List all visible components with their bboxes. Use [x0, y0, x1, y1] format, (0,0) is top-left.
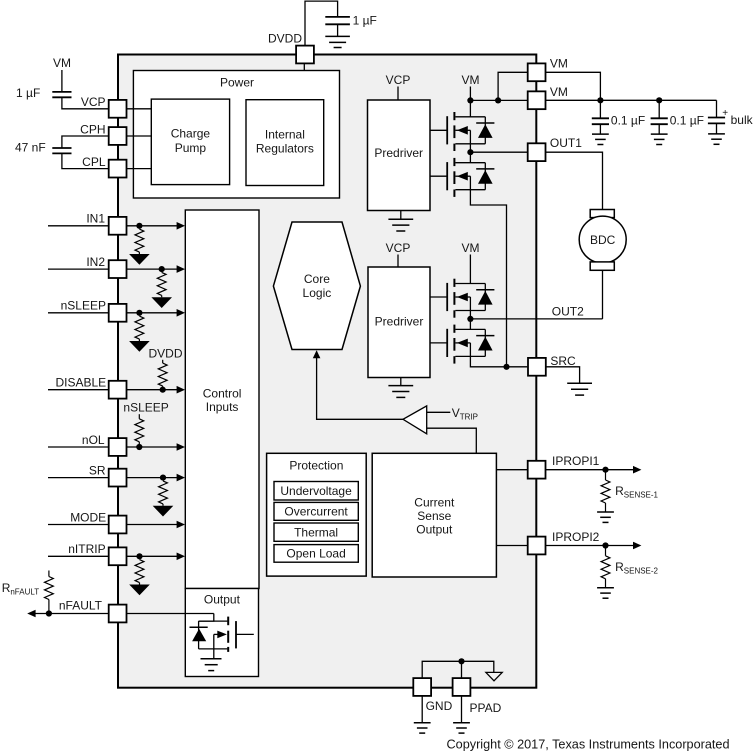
- svg-text:BDC: BDC: [590, 233, 616, 247]
- svg-text:VM: VM: [550, 57, 568, 71]
- transistor Q5 output open-drain: [199, 617, 254, 659]
- svg-text:Charge: Charge: [171, 127, 211, 141]
- wire IN1 external: [48, 225, 108, 227]
- transistor Q4 low-side bridge2: [447, 325, 494, 364]
- svg-text:IPROPI1: IPROPI1: [552, 454, 600, 468]
- node IPROPI2: [602, 542, 608, 548]
- wire predriver1 to ground: [400, 211, 402, 220]
- svg-text:0.1 µF: 0.1 µF: [670, 113, 704, 127]
- wire VM bridge1 drain: [469, 87, 471, 117]
- wire motor to OUT2: [602, 270, 604, 319]
- wire comparator to Current Sense Output: [427, 428, 477, 453]
- ground PPAD: [453, 723, 470, 733]
- motor BDC: [590, 210, 614, 218]
- block Predriver 1: [368, 100, 431, 211]
- wire gate high-side 2: [430, 296, 447, 298]
- pin nFAULT: [109, 605, 127, 623]
- wire flying cap to CPL: [62, 153, 109, 168]
- block Output: [185, 589, 258, 677]
- wire nSLEEP to Control Inputs: [127, 312, 179, 314]
- pin DVDD: [296, 46, 314, 64]
- resistor SR pulldown: [153, 481, 174, 517]
- wire cap to ground: [337, 24, 339, 36]
- svg-text:Control: Control: [203, 386, 242, 400]
- node nSLEEP pulldown: [136, 310, 142, 316]
- svg-text:Current: Current: [414, 495, 455, 509]
- wire nOL external: [48, 446, 108, 448]
- block Predriver 2: [368, 267, 430, 378]
- wire SRC to ground: [546, 367, 580, 384]
- wire predriver2 to ground: [400, 378, 402, 386]
- svg-text:VCP: VCP: [81, 95, 106, 109]
- pin nITRIP: [109, 547, 127, 565]
- wire VM bridge2 drain: [469, 255, 471, 284]
- wire MODE to Control Inputs: [127, 524, 179, 526]
- wire VCP to Charge Pump: [127, 108, 152, 110]
- pin CPL: [109, 160, 127, 178]
- block Core Logic hexagon: [273, 222, 360, 350]
- svg-text:nSLEEP: nSLEEP: [61, 299, 106, 313]
- svg-text:CPL: CPL: [82, 155, 106, 169]
- svg-text:nSLEEP: nSLEEP: [123, 401, 168, 415]
- node IN1 pulldown: [136, 223, 142, 229]
- svg-text:IPROPI2: IPROPI2: [552, 530, 600, 544]
- svg-text:Output: Output: [416, 522, 453, 536]
- node OUT2: [467, 316, 473, 322]
- pin DISABLE: [109, 381, 127, 399]
- svg-text:Undervoltage: Undervoltage: [280, 484, 352, 498]
- pin IPROPI1: [528, 461, 546, 479]
- svg-text:Open Load: Open Load: [286, 547, 345, 561]
- block Charge Pump: [151, 99, 229, 185]
- wire VCP to predriver1: [397, 87, 399, 101]
- node OUT1: [467, 149, 473, 155]
- svg-text:CPH: CPH: [80, 122, 105, 136]
- wire MODE external: [48, 524, 108, 526]
- svg-text:nITRIP: nITRIP: [68, 542, 105, 556]
- op-amp current sense comparator: [403, 406, 427, 434]
- ground below predriver2: [388, 386, 413, 398]
- pin nOL: [109, 438, 127, 456]
- ground signal triangle: [486, 672, 502, 680]
- svg-text:Overcurrent: Overcurrent: [284, 505, 348, 519]
- svg-text:Protection: Protection: [289, 459, 343, 473]
- resistor RSENSE-2: [605, 546, 607, 556]
- wire VM2 to bulk cap: [546, 99, 717, 101]
- block Undervoltage: [274, 482, 358, 501]
- svg-text:Output: Output: [204, 592, 241, 606]
- wire DVDD to Internal Regulators: [303, 64, 305, 100]
- wire DISABLE external: [48, 389, 108, 391]
- node VM cap2: [656, 97, 662, 103]
- svg-text:VCP: VCP: [386, 241, 411, 255]
- block Current Sense Output: [372, 453, 496, 577]
- resistor RnFAULT: [48, 571, 50, 577]
- svg-text:VM: VM: [462, 241, 480, 255]
- svg-text:VM: VM: [550, 85, 568, 99]
- svg-text:DVDD: DVDD: [268, 32, 302, 46]
- IC body DRV8876: [118, 55, 536, 688]
- wire DVDD to external cap: [305, 1, 338, 45]
- wire DISABLE to Control Inputs: [127, 389, 179, 391]
- wire nFAULT external with left arrow: [33, 613, 108, 615]
- transistor Q2 low-side bridge1: [447, 158, 494, 197]
- wire CSO to IPROPI2: [496, 545, 527, 547]
- wire Q4 source to SRC: [470, 356, 527, 366]
- wire IPROPI1 external with arrow: [546, 469, 634, 471]
- block Control Inputs: [185, 210, 259, 589]
- svg-text:47 nF: 47 nF: [15, 141, 46, 155]
- capacitor 0.1uF #2: [658, 100, 660, 118]
- svg-text:Regulators: Regulators: [256, 142, 314, 156]
- wire nITRIP external: [48, 555, 108, 557]
- wire VTRIP input: [427, 411, 451, 413]
- svg-text:VCP: VCP: [386, 73, 411, 87]
- svg-text:IN1: IN1: [86, 212, 105, 226]
- ground output stage: [201, 659, 222, 671]
- svg-text:Power: Power: [220, 76, 254, 90]
- pin OUT1: [528, 143, 546, 161]
- svg-text:1 µF: 1 µF: [353, 14, 377, 28]
- svg-text:bulk: bulk: [731, 113, 753, 127]
- pin MODE: [109, 516, 127, 534]
- ground below predriver1: [388, 219, 413, 231]
- wire GND to ground: [421, 696, 423, 723]
- wire CPH to Charge Pump: [127, 135, 152, 137]
- wire GND PPAD tie rail: [422, 661, 494, 678]
- block Overcurrent: [274, 502, 358, 520]
- svg-text:Predriver: Predriver: [375, 314, 424, 328]
- svg-text:+: +: [722, 108, 728, 119]
- wire CPH to flying cap: [62, 136, 109, 148]
- transistor Q3 high-side bridge2: [447, 279, 494, 318]
- resistor IN1 pulldown: [129, 229, 150, 265]
- svg-text:Core: Core: [304, 272, 330, 286]
- pin nSLEEP: [109, 304, 127, 322]
- block Thermal: [274, 523, 358, 541]
- wire Q1 source to OUT1 node: [469, 144, 471, 163]
- wire PPAD to ground: [461, 696, 463, 723]
- ground SRC: [567, 383, 592, 395]
- wire CPL to Charge Pump: [127, 168, 152, 170]
- Protection group box: [267, 453, 367, 576]
- resistor nSLEEP pulldown: [129, 316, 150, 352]
- wire Q3 source to OUT2 node: [469, 311, 471, 330]
- wire SR to Control Inputs: [127, 477, 179, 479]
- Power group box: [133, 71, 339, 199]
- capacitor C-DVDD 1uF: [325, 17, 350, 24]
- ground below DVDD cap: [325, 36, 350, 47]
- pin SRC: [528, 358, 546, 376]
- svg-text:SRC: SRC: [550, 354, 576, 368]
- svg-text:Logic: Logic: [303, 286, 332, 300]
- node SRC: [503, 364, 509, 370]
- wire comparator to Core Logic with up arrow: [317, 352, 403, 420]
- wire VCP to predriver2: [397, 255, 399, 268]
- node IN2 pulldown: [159, 266, 165, 272]
- pin VCP: [109, 100, 127, 118]
- svg-text:Pump: Pump: [175, 141, 207, 155]
- svg-text:OUT1: OUT1: [550, 136, 582, 150]
- wire cap to VCP pin: [62, 97, 109, 109]
- diode output body: [198, 621, 200, 649]
- ground GND: [414, 723, 431, 733]
- wire Q2 source to SRC rail: [470, 190, 506, 367]
- pin GND: [413, 678, 431, 696]
- node SR pulldown: [160, 475, 166, 481]
- wire gate low-side 2: [430, 342, 447, 344]
- svg-text:Copyright © 2017, Texas Instru: Copyright © 2017, Texas Instruments Inco…: [447, 736, 730, 751]
- pin VM2: [528, 91, 546, 109]
- pin IN1: [109, 217, 127, 235]
- wire CSO to IPROPI1: [496, 469, 527, 471]
- wire gate low-side 1: [430, 175, 447, 177]
- svg-text:MODE: MODE: [70, 510, 106, 524]
- block Internal Regulators: [246, 100, 324, 186]
- svg-text:Inputs: Inputs: [206, 400, 239, 414]
- block Open Load: [274, 545, 358, 563]
- svg-text:IN2: IN2: [86, 255, 105, 269]
- pin PPAD: [453, 678, 471, 696]
- node nITRIP pulldown: [136, 553, 142, 559]
- svg-text:1 µF: 1 µF: [16, 86, 40, 100]
- output MOSFET drain wire: [199, 614, 214, 622]
- node VM rail at bridge1: [467, 97, 473, 103]
- svg-text:Predriver: Predriver: [374, 146, 423, 160]
- wire OUT1 to motor: [546, 152, 603, 209]
- ground RSENSE-1: [597, 512, 614, 522]
- svg-text:Internal: Internal: [265, 127, 305, 141]
- wire IPROPI2 external with arrow: [546, 545, 634, 547]
- pin IPROPI2: [528, 537, 546, 555]
- wire IN1 to Control Inputs: [127, 225, 179, 227]
- wire gate high-side 1: [430, 129, 447, 131]
- resistor RSENSE-1: [605, 470, 607, 480]
- wire VM to cap: [61, 70, 63, 92]
- wire nITRIP to Control Inputs: [127, 555, 179, 557]
- wire SR external: [48, 477, 108, 479]
- node VM rail at pin1 branch: [495, 97, 501, 103]
- svg-text:0.1 µF: 0.1 µF: [611, 113, 645, 127]
- wire IN2 external: [48, 268, 108, 270]
- svg-text:SR: SR: [89, 463, 106, 477]
- resistor DVDD pullup: [162, 360, 164, 363]
- resistor nITRIP pulldown: [129, 560, 150, 596]
- ground RSENSE-2: [597, 588, 614, 598]
- svg-text:DVDD: DVDD: [148, 347, 182, 361]
- pin SR: [109, 469, 127, 487]
- node PPAD tie: [458, 658, 464, 664]
- capacitor bulk electrolytic: [716, 100, 718, 117]
- svg-text:OUT2: OUT2: [552, 304, 584, 318]
- capacitor C-FLY 47nF: [52, 148, 71, 153]
- svg-text:DISABLE: DISABLE: [55, 376, 106, 390]
- svg-text:Sense: Sense: [417, 509, 451, 523]
- svg-text:nOL: nOL: [82, 433, 105, 447]
- resistor IN2 pulldown: [151, 272, 172, 308]
- capacitor 0.1uF #1: [599, 100, 601, 118]
- wire OUT2 node to motor: [470, 318, 602, 320]
- pin CPH: [109, 127, 127, 145]
- node IPROPI1: [602, 467, 608, 473]
- resistor nSLEEP pullup: [138, 414, 140, 419]
- node nFAULT pullup: [46, 610, 52, 616]
- node DISABLE pullup: [160, 387, 166, 393]
- node nOL pullup: [136, 444, 142, 450]
- svg-text:PPAD: PPAD: [470, 701, 502, 715]
- wire IN2 to Control Inputs: [127, 268, 179, 270]
- svg-text:VM: VM: [462, 73, 480, 87]
- wire VM pin1 branch: [498, 72, 527, 100]
- wire nSLEEP external: [48, 312, 108, 314]
- wire OUT1 node to pin: [470, 151, 527, 153]
- svg-text:nFAULT: nFAULT: [59, 598, 103, 612]
- capacitor C-VCP 1uF: [52, 92, 71, 97]
- wire VM1 to bulk rail: [546, 72, 601, 100]
- svg-text:Thermal: Thermal: [294, 525, 338, 539]
- wire nOL to Control Inputs: [127, 446, 179, 448]
- wire nFAULT to Output block: [127, 613, 214, 615]
- pin IN2: [109, 260, 127, 278]
- pin VM1: [528, 63, 546, 81]
- node VM cap1: [597, 97, 603, 103]
- wire VM rail to VM pin2: [470, 99, 527, 101]
- transistor Q1 high-side bridge1: [447, 112, 494, 151]
- svg-text:VM: VM: [53, 56, 71, 70]
- svg-text:GND: GND: [426, 699, 453, 713]
